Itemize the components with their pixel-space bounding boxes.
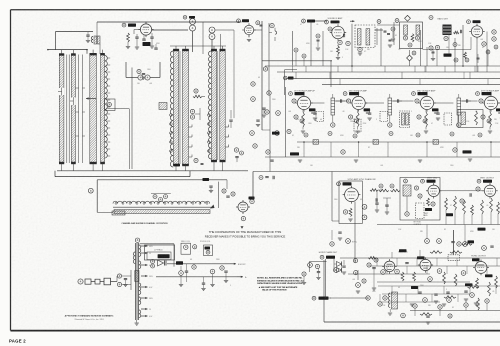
svg-text:PAGE 2: PAGE 2 xyxy=(9,339,26,344)
